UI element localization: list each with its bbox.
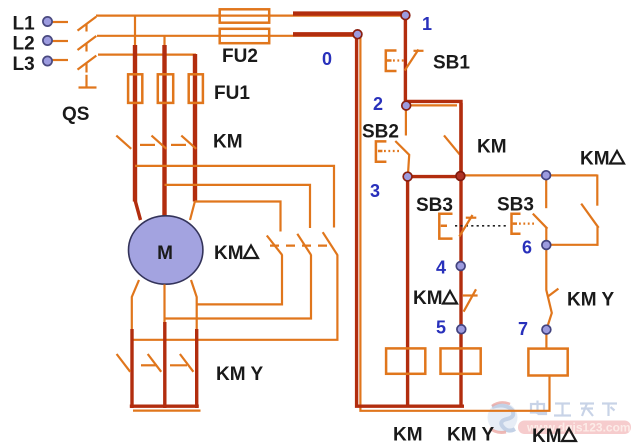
button SB3 left blade NC xyxy=(459,215,476,237)
wire node 7 to KM-delta coil xyxy=(545,330,547,349)
node 6 xyxy=(542,241,551,250)
node 7 xyxy=(542,325,551,334)
label coil KM xyxy=(393,425,423,443)
contactor KM main contact 3 xyxy=(181,136,196,149)
node 4 xyxy=(456,262,465,271)
contactor KM main contact 2 xyxy=(152,136,167,149)
watermark band xyxy=(518,421,631,435)
node label 0 xyxy=(322,49,332,69)
wire delta return 1 to motor right lead xyxy=(197,255,282,304)
wire KM-Y coil line highlighted xyxy=(459,103,462,406)
watermark text dian xyxy=(531,401,546,415)
contactor KM-delta contact 2 xyxy=(297,234,311,255)
label FU2 xyxy=(222,46,258,67)
wire delta branch from phase C xyxy=(195,202,281,232)
contactor KM-delta contact 3 xyxy=(323,232,338,255)
wire phase A drop highlighted xyxy=(135,45,141,220)
label KM-Y right xyxy=(567,290,614,311)
node 3 xyxy=(403,172,412,181)
button SB1 blade NC xyxy=(405,50,424,71)
contactor KM main contact 1 xyxy=(116,136,131,149)
wire motor middle lead down xyxy=(163,284,166,408)
terminal circle L3 xyxy=(43,56,52,65)
svg-text:SB3: SB3 xyxy=(497,195,534,216)
contactor KM-Y contact 3 xyxy=(180,354,194,372)
wire delta return 2 to motor middle lead xyxy=(165,255,312,319)
label KM main xyxy=(213,132,243,153)
button SB2 operator xyxy=(376,141,400,161)
label KM auxiliary xyxy=(477,137,507,158)
watermark logo xyxy=(488,402,518,432)
node label 1 xyxy=(422,14,432,34)
button SB2 stub and blade NO xyxy=(395,109,409,174)
svg-text:7: 7 xyxy=(518,319,528,339)
svg-text:KM Y: KM Y xyxy=(567,290,614,311)
fuse FU1 pole 3 xyxy=(189,74,203,103)
label coil KM-Y xyxy=(447,425,494,443)
fuse FU2 upper xyxy=(220,9,270,22)
wire node 3 horizontal highlighted xyxy=(404,175,461,178)
node label 7 xyxy=(518,319,528,339)
node label 4 xyxy=(436,258,446,278)
switch QS pole 2 blade xyxy=(78,36,97,52)
button SB3 left operator xyxy=(439,214,452,239)
wire motor right lead down xyxy=(191,280,197,408)
wire self-hold branch highlighted xyxy=(405,101,461,178)
terminal circle L2 xyxy=(43,36,52,45)
contactor KM-delta contact 1 xyxy=(267,236,283,256)
wire phase A drop orange xyxy=(134,16,136,47)
svg-text:KM: KM xyxy=(393,425,423,443)
coil KM xyxy=(386,348,425,373)
watermark text gong xyxy=(554,404,571,416)
wire delta return 3 to motor left lead xyxy=(132,255,337,340)
svg-text:4: 4 xyxy=(436,258,446,278)
label KM-delta right xyxy=(580,149,624,170)
wire delta branch from phase B xyxy=(165,185,311,228)
label QS xyxy=(62,104,89,125)
label SB3 left xyxy=(416,195,453,216)
contact KM-Y NC blade xyxy=(546,246,558,330)
contactor KM-Y contact 1 xyxy=(117,354,131,372)
wire L2 phase orange xyxy=(97,35,356,37)
node label 5 xyxy=(436,318,446,338)
node 2 xyxy=(402,101,411,110)
label SB1 xyxy=(433,53,470,74)
junction node red xyxy=(456,172,465,181)
node 0 xyxy=(353,30,362,39)
contactor KM main linkage dashes xyxy=(140,144,186,146)
label KM-Y lower xyxy=(216,364,263,385)
linkage SB3 dotted xyxy=(455,225,509,227)
contactor KM-delta linkage dashes xyxy=(270,245,334,247)
node label 6 xyxy=(522,238,532,258)
node label 3 xyxy=(370,181,380,201)
svg-text:FU2: FU2 xyxy=(222,46,258,67)
button SB3 right operator xyxy=(512,214,537,234)
wire motor left lead down xyxy=(132,280,139,408)
svg-text:L2: L2 xyxy=(13,34,35,55)
contact KM auxiliary blade xyxy=(444,135,460,154)
terminal circle L1 xyxy=(43,17,52,26)
svg-text:5: 5 xyxy=(436,318,446,338)
svg-text:KM: KM xyxy=(477,137,507,158)
wire node 1 through SB1 to node 2 xyxy=(404,14,407,107)
node 5 xyxy=(457,325,466,334)
label SB2 xyxy=(362,122,399,143)
wire control left rail highlighted from node 0 xyxy=(357,34,464,406)
wire star point bar xyxy=(130,406,201,410)
wire L1 phase orange xyxy=(96,15,404,17)
node label 2 xyxy=(373,94,383,114)
fuse FU2 lower xyxy=(220,29,270,43)
svg-text:M: M xyxy=(157,243,173,264)
wire KM coil line highlighted xyxy=(406,178,409,406)
wire node 3 horizontal orange to delta branch xyxy=(462,174,597,176)
wire delta branch from phase A xyxy=(135,166,334,228)
fuse FU1 pole 2 xyxy=(158,74,173,103)
label L2 xyxy=(13,34,35,55)
watermark text xia xyxy=(602,404,617,417)
label SB3 right xyxy=(497,195,534,216)
svg-text:QS: QS xyxy=(62,104,89,125)
label KM-delta NC xyxy=(413,288,457,309)
wire control left rail orange xyxy=(360,36,549,411)
wire phase C drop highlighted xyxy=(193,54,197,202)
contact KM-delta NC blade xyxy=(463,289,478,311)
svg-text:KM: KM xyxy=(413,288,443,309)
contactor KM-Y contact 2 xyxy=(148,354,162,372)
wire phase B drop highlighted xyxy=(162,45,166,218)
switch QS linkage handle xyxy=(79,75,97,88)
svg-text:0: 0 xyxy=(322,49,332,69)
svg-text:2: 2 xyxy=(373,94,383,114)
svg-text:KM: KM xyxy=(213,132,243,153)
svg-text:FU1: FU1 xyxy=(214,83,250,104)
switch QS pole 1 blade xyxy=(78,17,97,32)
watermark text tian xyxy=(580,404,594,417)
node 1 xyxy=(401,11,410,20)
coil KM-delta xyxy=(528,349,567,376)
terminal L3 xyxy=(52,59,68,61)
svg-text:KM Y: KM Y xyxy=(447,425,494,443)
svg-text:L3: L3 xyxy=(13,54,35,75)
svg-text:KM: KM xyxy=(214,243,244,264)
svg-text:KM: KM xyxy=(532,426,562,443)
contact KM-delta auxiliary branch xyxy=(546,175,598,246)
fuse FU1 pole 1 xyxy=(128,74,142,103)
wire phase C into motor xyxy=(190,201,195,220)
coil KM-Y xyxy=(441,348,481,373)
svg-text:SB1: SB1 xyxy=(433,53,470,74)
wire L1 phase highlighted to node 1 xyxy=(293,11,407,15)
label L3 xyxy=(13,54,35,75)
svg-text:SB3: SB3 xyxy=(416,195,453,216)
svg-text:6: 6 xyxy=(522,238,532,258)
motor M xyxy=(129,216,203,284)
label coil KM-delta xyxy=(532,426,576,443)
wire phase B drop orange xyxy=(163,36,165,47)
terminal L2 xyxy=(52,40,68,42)
wire L3 phase orange xyxy=(98,53,196,55)
switch QS pole 3 blade xyxy=(78,56,97,73)
terminal L1 xyxy=(52,21,68,23)
svg-text:L1: L1 xyxy=(13,14,36,35)
wire L2 phase highlighted to node 0 xyxy=(293,32,359,36)
node top of delta aux branch xyxy=(542,171,551,180)
button SB1 operator xyxy=(386,51,406,72)
svg-text:3: 3 xyxy=(370,181,380,201)
svg-text:KM: KM xyxy=(580,149,610,170)
label KM-delta motor xyxy=(214,243,258,264)
svg-text:1: 1 xyxy=(422,14,432,34)
contactor KM-Y linkage dashes xyxy=(141,364,187,366)
svg-text:SB2: SB2 xyxy=(362,122,399,143)
label L1 xyxy=(13,14,36,35)
button SB3 right stub and blade NO xyxy=(533,177,548,246)
svg-text:KM Y: KM Y xyxy=(216,364,263,385)
label FU1 xyxy=(214,83,250,104)
